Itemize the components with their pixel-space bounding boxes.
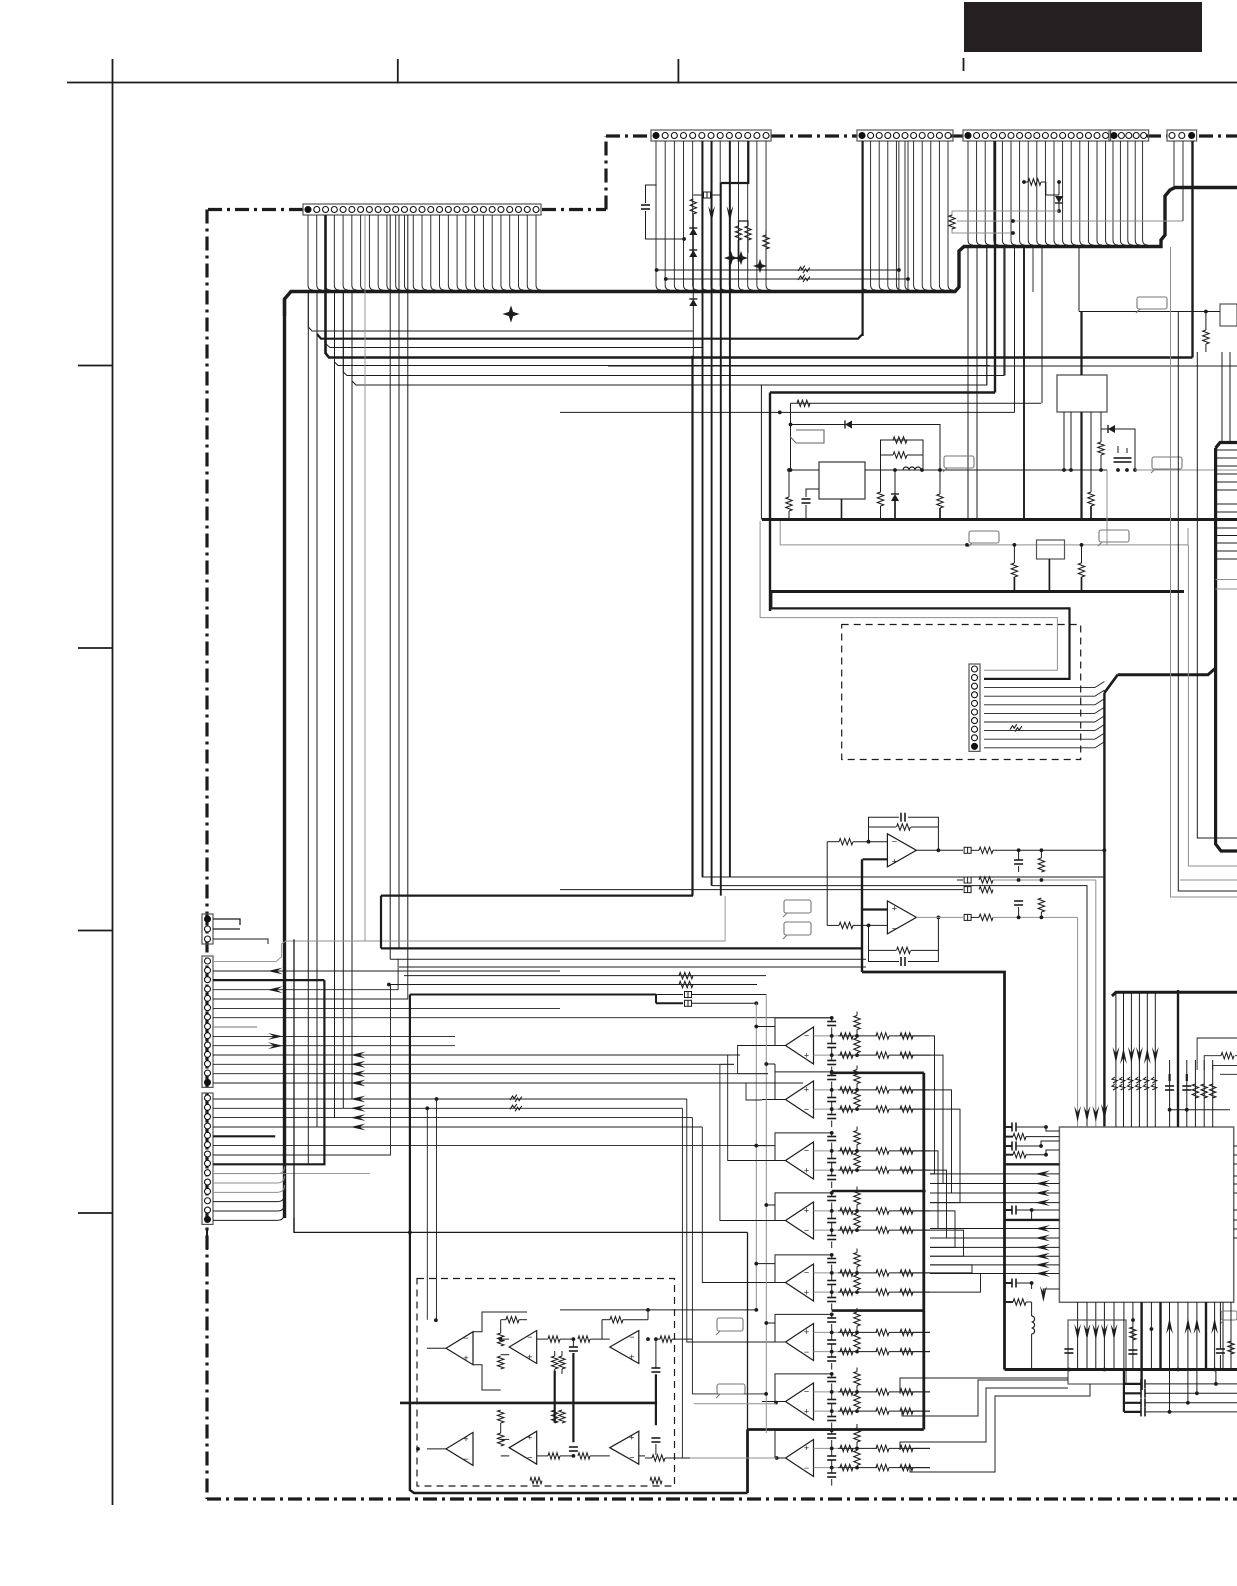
resistor (horizontal)	[876, 1348, 889, 1354]
wire row tail	[913, 1089, 930, 1091]
wire filter input row	[814, 1447, 839, 1449]
wire CN104 pin7 row	[213, 985, 391, 1156]
wire net D7 vertical	[389, 215, 391, 959]
wire loop cap leads	[831, 1314, 833, 1318]
resistor (horizontal)	[840, 1329, 853, 1335]
wire y880 drop	[1095, 880, 1097, 1127]
wire cap below leads	[831, 1352, 833, 1357]
resistor (horizontal)	[840, 1408, 853, 1414]
resistor R408 (vertical)	[1130, 1327, 1136, 1340]
wire R202 bottom	[738, 240, 740, 262]
wire loop res v	[854, 1131, 860, 1145]
label callout	[717, 1318, 743, 1331]
capacitor (vertical)	[827, 1339, 836, 1341]
wire D301 down	[1058, 203, 1060, 211]
resistor (vertical)	[854, 1450, 860, 1465]
IC left arrow pins group2	[930, 1228, 1059, 1230]
wire CN103 pin11 row	[213, 1054, 740, 1056]
svg-text:+: +	[804, 1166, 809, 1176]
capacitor below (vertical)	[827, 1416, 836, 1418]
connector CN101	[303, 204, 541, 215]
capacitor C104	[1014, 900, 1023, 902]
wire CN203 verticals continuing	[1004, 245, 1006, 376]
junction dot	[830, 1466, 834, 1470]
wire CN301 rows merge	[1095, 682, 1104, 688]
junction dot	[1099, 468, 1103, 472]
svg-text:−: −	[804, 1463, 809, 1473]
resistor R102 (horizontal)	[839, 839, 853, 845]
wire reg gnd	[841, 499, 843, 520]
inductor L401 (vertical)	[1032, 1316, 1035, 1334]
wire row tail	[913, 1169, 930, 1171]
gray net row (y221)	[957, 220, 1183, 222]
capacitor C120 (vertical)	[569, 1346, 578, 1348]
wire Q301 lead2	[1070, 412, 1072, 470]
wire net F elbow	[760, 385, 762, 520]
wire C104	[1018, 907, 1020, 917]
resistor (horizontal)	[900, 1148, 913, 1154]
wire cap row	[1145, 1402, 1237, 1404]
wire loop cap	[827, 1377, 836, 1379]
wire long vertical net R4	[1197, 352, 1237, 838]
bus wire right edge top corner	[1216, 443, 1237, 449]
arrow left on pin11 row	[351, 1052, 366, 1059]
wire comp L-nets	[1197, 1038, 1237, 1070]
diode D303	[891, 494, 899, 501]
op-amp U113	[509, 1331, 537, 1364]
wire CN103 pin10 row	[213, 1045, 455, 1047]
connector CN301 (vertical)	[969, 664, 980, 751]
wire R405 net	[1005, 1136, 1014, 1138]
wire gray vertical x756.3	[755, 1003, 757, 1310]
bus wire thick chamfer down	[1104, 675, 1117, 693]
junction dot	[1044, 1153, 1048, 1157]
wire to U117	[590, 1455, 610, 1457]
wire out2 row cont	[993, 916, 1078, 918]
wire cap below leads	[831, 1411, 833, 1416]
arrow down at IC top	[1101, 1104, 1108, 1120]
junction dot	[775, 1456, 779, 1460]
wire row (y1003.3) thick seg	[656, 1002, 683, 1004]
wire CN203 pin4 thick vertical	[994, 141, 996, 393]
resistor R308 (vertical)	[937, 494, 943, 508]
wire cap col	[831, 1036, 833, 1044]
wire mid2	[560, 1455, 573, 1457]
junction dot	[830, 1350, 834, 1354]
wire CN103 pin3 thick row	[213, 979, 324, 981]
wire thick row (y895.6)	[381, 894, 693, 896]
diode D304	[1108, 425, 1115, 433]
capacitor C401	[1165, 1085, 1174, 1087]
wire output	[762, 1220, 786, 1222]
wire D201-D202	[692, 235, 694, 250]
wire res col	[856, 1090, 858, 1092]
junction dot	[922, 1189, 926, 1193]
junction dot	[1168, 1410, 1172, 1414]
wire loop res v	[854, 1253, 860, 1267]
wire IC top comp pins	[1169, 1060, 1171, 1127]
wire row to R	[838, 1169, 857, 1171]
wire loop res v	[854, 1070, 860, 1084]
wire U102 out extension	[740, 1045, 762, 1047]
wire U101A +in thick	[863, 858, 888, 860]
wire filter input row	[814, 1229, 839, 1231]
svg-text:−: −	[892, 836, 897, 846]
wire row y880 comps	[957, 879, 963, 881]
capacitor (vertical)	[827, 1280, 836, 1282]
arrow right on pin9 row	[268, 1033, 283, 1040]
wire CN103 pin8 gray stub	[213, 1026, 257, 1028]
wire U103 out extension	[746, 1099, 762, 1101]
capacitor C407	[1064, 1348, 1073, 1350]
svg-text:+: +	[892, 903, 897, 913]
wire row cont2	[889, 1035, 910, 1037]
op-amp U112	[446, 1332, 473, 1365]
resistor R110 (horizontal)	[679, 972, 693, 978]
wire net I (y412)	[560, 411, 1015, 413]
wire loop res leads	[856, 1066, 858, 1070]
wire loop cap leads	[831, 1374, 833, 1378]
break mark	[798, 275, 805, 280]
resistor R133 (horizontal)	[578, 1453, 590, 1459]
wire row to R	[838, 1210, 857, 1212]
resistor (horizontal)	[840, 1464, 853, 1470]
wire out rows right	[910, 1331, 930, 1333]
wire net K elbow	[760, 521, 1057, 670]
wire IC bottom pins mid	[1123, 1302, 1125, 1370]
wire row cont2	[889, 1467, 910, 1469]
wire out row	[971, 849, 979, 851]
wire R313 vertical	[1205, 312, 1207, 331]
junction dot	[965, 543, 969, 547]
resistor (horizontal)	[840, 1208, 853, 1214]
wire R307 down	[880, 470, 882, 492]
wire U101B -in	[853, 924, 887, 926]
junction dot	[646, 1337, 650, 1341]
wire nest lines	[900, 1378, 1068, 1394]
resistor (horizontal)	[840, 1087, 853, 1093]
capacitor C304	[1123, 457, 1132, 459]
resistor (horizontal)	[900, 1408, 913, 1414]
wire filter input row	[814, 1272, 839, 1274]
wire row tail	[913, 1229, 930, 1231]
label callout	[1152, 457, 1182, 469]
wire res col	[856, 1332, 858, 1334]
wire C201 lead	[646, 211, 685, 239]
junction dot	[893, 468, 897, 472]
wire CN102 stub	[240, 919, 262, 925]
capacitor (vertical)	[827, 1399, 836, 1401]
resistor R307 (vertical)	[877, 492, 883, 506]
svg-text:+: +	[804, 1206, 809, 1216]
resistor (vertical)	[854, 1092, 860, 1107]
resistor R120 (horizontal)	[506, 1317, 519, 1323]
wire to diode	[1041, 181, 1046, 183]
wire loop b2	[604, 1456, 650, 1481]
junction dot	[425, 1106, 429, 1110]
wire row cont2	[889, 1210, 910, 1212]
resistor R126 (vertical)	[552, 1356, 558, 1369]
resistor R122 (vertical)	[498, 1356, 504, 1369]
resistor R108 (vertical)	[1038, 898, 1044, 912]
wire thick CN201 pin8 vertical	[720, 183, 722, 896]
svg-text:−: −	[527, 1332, 532, 1342]
junction dot	[682, 237, 686, 241]
wire route stair2 (to U105 out)	[720, 1064, 770, 1220]
wire filter input row	[814, 1035, 839, 1037]
wire filter input row	[814, 1150, 839, 1152]
wire row to R	[838, 1035, 857, 1037]
star mark pair	[726, 253, 737, 264]
wire feedback loop	[775, 1193, 832, 1221]
arrow down on pin10 wire	[727, 206, 734, 222]
op-amp U109	[786, 1440, 814, 1477]
title block (black)	[964, 2, 1202, 52]
wire CN102 pin1	[213, 919, 240, 925]
wire into R	[645, 1457, 652, 1459]
junction dot	[830, 1331, 834, 1335]
wire long vertical net R1	[1171, 247, 1237, 897]
junction dot	[1022, 180, 1026, 184]
wire filter input row	[814, 1169, 839, 1171]
wire row cont	[857, 1035, 877, 1037]
wire row net D4	[335, 292, 991, 366]
capacitor below (vertical)	[827, 1175, 836, 1177]
wire loop cap	[827, 1258, 836, 1260]
junction dot	[435, 1097, 439, 1101]
resistor (horizontal)	[840, 1052, 853, 1058]
capacitor below (vertical)	[827, 1297, 836, 1299]
wire cap row	[1145, 1383, 1237, 1385]
wire cap below leads	[831, 1292, 833, 1297]
resistor (horizontal)	[840, 1348, 853, 1354]
diode D201	[689, 228, 697, 235]
junction dot	[408, 1231, 412, 1235]
resistor R402 (vertical)	[1201, 1084, 1207, 1098]
wire filter input row	[814, 1054, 839, 1056]
wire loop res leads	[856, 1249, 858, 1253]
arrow down	[1040, 1286, 1047, 1302]
wire reg output	[865, 469, 1107, 471]
connector CN203	[963, 130, 1111, 141]
connector CN103 (14p)	[202, 956, 213, 1087]
wire CN301 pin8 row	[984, 730, 1095, 732]
wire R104	[1040, 850, 1042, 858]
wire loop res leads	[856, 1368, 858, 1372]
wire net J to edge	[1135, 469, 1237, 471]
svg-text:+: +	[463, 1434, 468, 1444]
wire loop cap leads	[831, 1133, 833, 1137]
wire loop res leads	[856, 1012, 858, 1016]
wire row to R	[838, 1410, 857, 1412]
DAC sub-box	[1068, 1320, 1126, 1384]
wire Q301 top riser thick	[1080, 312, 1082, 376]
wire thick common (y1191)	[832, 1190, 924, 1193]
wire U114 out	[639, 1346, 658, 1348]
wire cap below leads	[831, 1109, 833, 1114]
wire cap row drop	[1196, 1370, 1198, 1394]
wire gray vertical x766.3	[765, 995, 767, 1434]
wire loop cap leads	[831, 1430, 833, 1434]
wire U101A feedback loop	[869, 817, 900, 842]
wire R120 loop	[501, 1319, 506, 1321]
capacitor C413	[1140, 1407, 1142, 1416]
wire row net D0	[308, 292, 693, 331]
arrow left on pin4 row	[268, 986, 283, 993]
wire net drop from bus	[1078, 247, 1080, 312]
resistor (horizontal)	[840, 1148, 853, 1154]
bus wire bottom thick (y1369.5)	[1005, 1368, 1237, 1371]
svg-text:−: −	[463, 1333, 468, 1343]
arrow left on pin2 row	[351, 1105, 366, 1112]
wire D203 down	[692, 306, 694, 358]
wire thick step	[655, 995, 657, 1004]
arrow right on pin10 row	[268, 1042, 283, 1049]
label callout	[944, 456, 974, 468]
wire CN301 pin4 row	[984, 695, 1095, 697]
resistor R121 (vertical)	[498, 1333, 504, 1346]
wire Q301 lead3 thick	[1080, 412, 1082, 520]
resistor (horizontal)	[876, 1208, 889, 1214]
wire row cont	[857, 1447, 877, 1449]
inductor L301	[903, 467, 921, 470]
wire row to R	[838, 1272, 857, 1274]
resistor (horizontal)	[840, 1167, 853, 1173]
wire CN102 pins link	[213, 939, 268, 944]
wire thick common (y1072.8)	[832, 1072, 924, 1075]
wire IC left thick pin (y1164.3)	[1005, 1163, 1060, 1165]
break marks on 6-bundle	[1112, 1077, 1118, 1083]
flag label	[790, 430, 824, 443]
resistor (horizontal)	[876, 1087, 889, 1093]
wire loop res leads	[856, 1127, 858, 1131]
resistor (horizontal)	[876, 1052, 889, 1058]
wire U116 bottom loop	[502, 1479, 509, 1481]
junction dot	[830, 1149, 834, 1153]
wire cap-row riser	[1123, 1370, 1125, 1412]
wire CN104 pin5 thick stub	[213, 1135, 275, 1137]
wire row net D1 stub	[316, 292, 318, 334]
wire row (y984.5)	[389, 984, 757, 986]
wire row tail	[913, 1447, 930, 1449]
wire thick bottom join	[748, 1428, 924, 1431]
arrows up on bottom pins	[1166, 1318, 1173, 1334]
wire thick stubs above caps	[1168, 1074, 1170, 1081]
wire feedback loop	[775, 1072, 832, 1100]
resistor (horizontal)	[900, 1227, 913, 1233]
wire gray drop	[1106, 470, 1108, 545]
op-amp U107	[786, 1324, 814, 1361]
wire R407 net	[1005, 1301, 1014, 1303]
chain line right of CN101	[542, 208, 606, 211]
resistor R409 (vertical)	[1228, 1341, 1234, 1354]
wire row tail	[913, 1331, 930, 1333]
junction dot	[1103, 848, 1107, 852]
op-amp U104	[786, 1142, 814, 1179]
wire thick CN201 pin7 vertical	[711, 141, 713, 886]
op-amp U106	[786, 1264, 814, 1301]
wire cap row drop	[1169, 1370, 1171, 1412]
junction dot	[830, 1409, 834, 1413]
wire CN104 below stub	[206, 1228, 208, 1250]
resistor (horizontal)	[840, 1033, 853, 1039]
svg-text:+: +	[892, 856, 897, 866]
wire CN104 pin6 row	[213, 1145, 766, 1147]
wire nest loopC	[902, 1380, 1068, 1416]
wire res col	[856, 1036, 858, 1038]
bus wire thick join (y674)	[1118, 668, 1216, 675]
wire row cont	[857, 1351, 877, 1353]
bus wire main horizontal	[285, 188, 1237, 317]
wire C405 branch	[1031, 1210, 1033, 1220]
wire CN202 pin5 vertical	[898, 141, 900, 292]
wire route stair4 (to U103 out)	[746, 1083, 803, 1100]
wire nest loopA	[900, 1388, 1068, 1450]
wire row cont2	[889, 1447, 910, 1449]
wire U101A -in	[853, 841, 887, 843]
resistor (horizontal)	[876, 1270, 889, 1276]
resistor R124 (horizontal)	[578, 1336, 590, 1342]
junction dot	[830, 1372, 834, 1376]
wire thick row (y994.5)	[410, 994, 656, 996]
wire loop cap leads	[831, 1072, 833, 1076]
wire row cont	[857, 1229, 877, 1231]
wire R105 left	[827, 924, 839, 926]
svg-text:+: +	[804, 1327, 809, 1337]
wire net D7 row	[390, 958, 866, 960]
wire row to R	[838, 1089, 857, 1091]
capacitor (vertical)	[827, 1158, 836, 1160]
junction dot	[830, 1271, 834, 1275]
wire route stair7 (to U108 in)	[692, 1118, 766, 1394]
junction dot	[1116, 468, 1120, 472]
wire bundle from CN202	[862, 141, 867, 290]
resistor (vertical)	[854, 1153, 860, 1168]
resistor (horizontal)	[900, 1464, 913, 1470]
wire loop res leads	[856, 1187, 858, 1191]
wire row net G (y366)	[608, 365, 1237, 367]
resistor (horizontal)	[900, 1348, 913, 1354]
wire U101B out	[916, 916, 963, 918]
wire row cont	[857, 1272, 877, 1274]
wire row cont	[857, 1150, 877, 1152]
wire row cont	[857, 1169, 877, 1171]
wire U110 gray link	[694, 1403, 776, 1405]
wire cap row stub	[1124, 1402, 1141, 1404]
svg-text:−: −	[527, 1453, 532, 1463]
wire row tail	[913, 1054, 930, 1056]
wire CN104 pin9 row	[213, 1173, 370, 1175]
wire cap col	[831, 1448, 833, 1456]
wire out rows right	[910, 1089, 930, 1091]
wire U114 out res	[660, 1336, 672, 1342]
resistor (horizontal)	[876, 1464, 889, 1470]
wire 6-bundle from bus	[1115, 992, 1117, 1127]
capacitor C302	[802, 498, 811, 500]
wire row cont2	[889, 1169, 910, 1171]
capacitor C409	[1216, 1348, 1225, 1350]
connector CN202	[857, 130, 953, 141]
IC pin stubs right edge group1	[1216, 449, 1237, 451]
junction dot	[830, 1071, 834, 1075]
wire row net H (y403)	[791, 402, 1042, 404]
wire thick CN201 pin6 vertical	[702, 141, 704, 877]
wire U116 inputs	[501, 1438, 510, 1440]
wire row to R	[838, 1108, 857, 1110]
capacitor C103	[900, 957, 902, 966]
wire loop cap leads	[831, 1193, 833, 1197]
wire row cont2	[889, 1108, 910, 1110]
